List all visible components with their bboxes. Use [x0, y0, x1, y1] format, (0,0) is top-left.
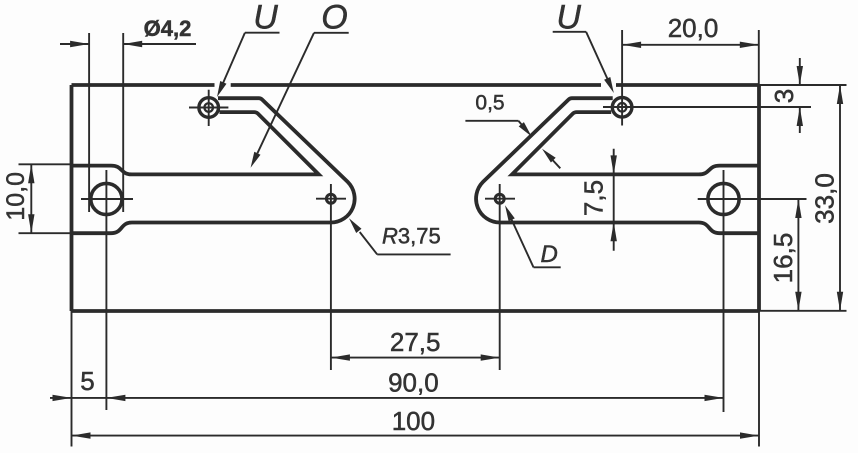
svg-text:Ø4,2: Ø4,2 — [144, 16, 192, 41]
dimension 27,5 — [331, 327, 500, 361]
right hole vertical centerline / 90,0 ext — [723, 170, 725, 412]
hole D v centerline / 27,5 ext — [499, 184, 501, 370]
dimension 3 (top to hole center) — [769, 58, 803, 133]
svg-text:20,0: 20,0 — [668, 13, 719, 43]
right mounting hole — [708, 183, 739, 214]
dimension 0,5 (slit width) — [465, 92, 560, 169]
svg-text:33,0: 33,0 — [810, 173, 840, 224]
svg-text:R3,75: R3,75 — [382, 224, 441, 249]
svg-text:U: U — [253, 0, 278, 37]
U right v centerline / 20,0 ext — [621, 30, 623, 126]
right keyhole slot cutout (mirror) — [512, 112, 759, 174]
svg-text:90,0: 90,0 — [388, 367, 439, 397]
label R3,75 with leader — [349, 218, 451, 254]
svg-text:16,5: 16,5 — [768, 233, 798, 284]
dimension 90,0 with 5 — [50, 366, 724, 401]
U right h centerline / dim 3 ext — [603, 106, 811, 108]
left slot hole v centerline / 27,5 ext — [330, 184, 332, 370]
svg-text:10,0: 10,0 — [2, 172, 30, 221]
plate outline (100x33 part) — [72, 85, 760, 311]
svg-text:100: 100 — [392, 406, 435, 436]
hole D — [485, 194, 515, 203]
label D with leader — [505, 205, 561, 268]
svg-text:5: 5 — [80, 366, 94, 396]
dimension 7,5 (slot width) — [579, 149, 617, 251]
label U left with leader — [217, 0, 280, 97]
svg-text:0,5: 0,5 — [475, 92, 504, 115]
hole U left — [189, 90, 228, 126]
label U right with leader — [553, 0, 614, 93]
dimension 16,5 — [768, 199, 802, 311]
dimension Ø4,2 — [60, 16, 196, 212]
dimension 33,0 — [759, 85, 847, 311]
svg-text:27,5: 27,5 — [390, 327, 441, 357]
left mounting hole (4.2 dia) — [81, 183, 133, 214]
svg-text:D: D — [541, 241, 558, 268]
label O with leader — [251, 0, 349, 168]
svg-text:3: 3 — [769, 89, 799, 103]
svg-text:7,5: 7,5 — [579, 180, 609, 216]
left hole vertical centerline / 90,0 ext — [105, 170, 107, 410]
dimension 20,0 — [622, 13, 759, 85]
dimension 100 — [72, 311, 760, 447]
svg-text:O: O — [321, 0, 347, 36]
left keyhole slot cutout O — [72, 112, 319, 174]
left slot end hole (R3,75 center) — [316, 194, 346, 203]
dimension 10,0 — [2, 164, 72, 233]
right hole h centerline / 16,5 ext — [698, 198, 807, 200]
hole U right — [612, 98, 632, 118]
